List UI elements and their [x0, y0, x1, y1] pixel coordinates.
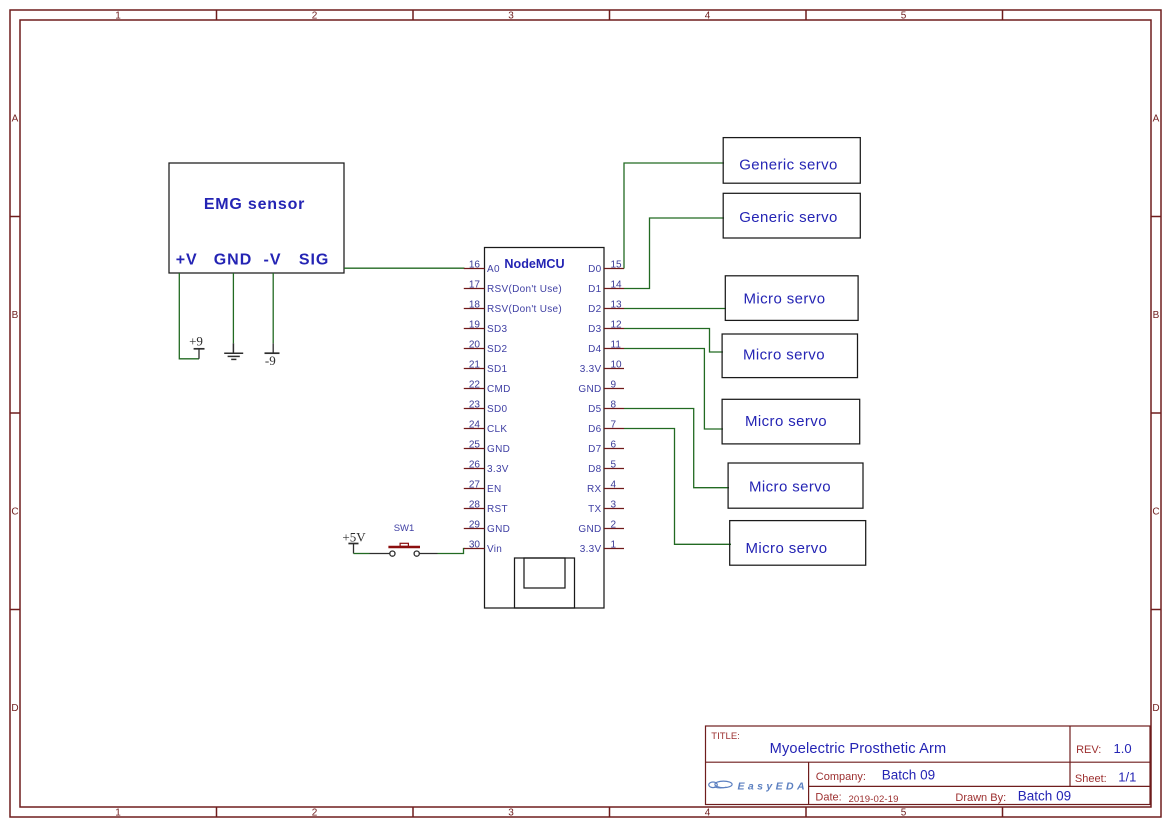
pin 10 (3.3V) [580, 360, 624, 376]
pin 13 (D2) [588, 300, 624, 316]
pin 12 (D3) [588, 320, 624, 336]
svg-text:5: 5 [611, 460, 617, 471]
NodeMCU U1 [485, 248, 605, 609]
wire SW1 to Vin [438, 549, 465, 554]
svg-text:SW1: SW1 [394, 523, 415, 534]
svg-text:1/1: 1/1 [1118, 769, 1136, 784]
pin 17 (RSV(Don't Use)) [464, 280, 562, 296]
Micro servo M4 [722, 334, 857, 378]
Generic servo M2 [723, 193, 860, 238]
svg-text:RSV(Don't Use): RSV(Don't Use) [487, 304, 562, 315]
svg-text:Generic servo: Generic servo [739, 209, 838, 226]
pin 1 (3.3V) [580, 540, 624, 556]
svg-text:C: C [11, 507, 18, 518]
svg-text:19: 19 [469, 320, 481, 331]
pin 4 (RX) [587, 480, 624, 496]
svg-text:+V: +V [176, 251, 198, 268]
svg-text:1: 1 [115, 11, 121, 22]
pin 14 (D1) [588, 280, 624, 296]
svg-text:Date:: Date: [815, 791, 841, 803]
svg-text:D7: D7 [588, 444, 602, 455]
svg-text:D: D [11, 703, 18, 714]
svg-text:3: 3 [508, 808, 514, 819]
Micro servo M7 [730, 521, 866, 566]
svg-text:A: A [12, 114, 19, 125]
svg-text:9: 9 [611, 380, 617, 391]
wire D6 to servo M7 [624, 429, 731, 545]
pin 6 (D7) [588, 440, 624, 456]
svg-text:3.3V: 3.3V [580, 364, 602, 375]
svg-text:21: 21 [469, 360, 481, 371]
svg-text:2: 2 [312, 808, 318, 819]
pin 8 (D5) [588, 400, 624, 416]
svg-text:28: 28 [469, 500, 481, 511]
svg-text:22: 22 [469, 380, 481, 391]
svg-text:29: 29 [469, 520, 481, 531]
svg-text:3: 3 [611, 500, 617, 511]
svg-text:1.0: 1.0 [1114, 741, 1132, 756]
wire SIG to A0 (net A0) [344, 267, 465, 269]
wire GND [232, 273, 234, 343]
svg-text:Generic servo: Generic servo [739, 157, 838, 174]
wire +5V to SW1 [354, 553, 370, 555]
wire D1 to servo M2 [624, 218, 724, 289]
svg-text:Vin: Vin [487, 544, 502, 555]
svg-text:EMG sensor: EMG sensor [204, 196, 305, 213]
svg-text:2: 2 [611, 520, 617, 531]
svg-text:-9: -9 [265, 353, 276, 368]
power +9 [189, 334, 204, 359]
svg-text:SIG: SIG [299, 251, 330, 268]
svg-text:GND: GND [578, 524, 601, 535]
svg-text:D1: D1 [588, 284, 602, 295]
svg-text:18: 18 [469, 300, 481, 311]
svg-text:2019-02-19: 2019-02-19 [849, 794, 899, 805]
pin 2 (GND) [578, 520, 624, 536]
pin 24 (CLK) [464, 420, 508, 436]
title block [706, 726, 1151, 805]
svg-text:4: 4 [705, 808, 711, 819]
svg-text:TITLE:: TITLE: [711, 731, 740, 742]
svg-text:Myoelectric Prosthetic Arm: Myoelectric Prosthetic Arm [770, 741, 947, 757]
svg-text:B: B [1153, 310, 1160, 321]
svg-text:D5: D5 [588, 404, 602, 415]
svg-text:C: C [1152, 507, 1159, 518]
svg-text:GND: GND [578, 384, 601, 395]
svg-text:5: 5 [901, 11, 907, 22]
svg-text:1: 1 [115, 808, 121, 819]
EMG sensor [169, 163, 344, 273]
Micro servo M3 [725, 276, 858, 321]
svg-text:3: 3 [508, 11, 514, 22]
svg-text:GND: GND [487, 524, 510, 535]
ground [224, 343, 243, 359]
svg-text:Micro servo: Micro servo [744, 291, 826, 308]
wire +V to +9 [179, 273, 199, 359]
pin 3 (TX) [588, 500, 624, 516]
svg-text:D4: D4 [588, 344, 602, 355]
svg-text:12: 12 [611, 320, 623, 331]
pin 27 (EN) [464, 480, 502, 496]
pin 20 (SD2) [464, 340, 508, 356]
svg-text:Drawn By:: Drawn By: [955, 792, 1006, 804]
pin 28 (RST) [464, 500, 508, 516]
pin 9 (GND) [578, 380, 624, 396]
pin 22 (CMD) [464, 380, 511, 396]
svg-text:Micro servo: Micro servo [743, 347, 825, 364]
svg-text:17: 17 [469, 280, 481, 291]
pin 7 (D6) [588, 420, 624, 436]
svg-text:Company:: Company: [816, 771, 866, 783]
power -9 [265, 343, 280, 368]
svg-text:Batch 09: Batch 09 [1018, 789, 1071, 804]
svg-text:7: 7 [611, 420, 617, 431]
pin 26 (3.3V) [464, 460, 509, 476]
svg-text:16: 16 [469, 260, 481, 271]
Generic servo M1 [723, 138, 860, 184]
Micro servo M6 [728, 463, 863, 508]
pin 11 (D4) [588, 340, 624, 356]
wire D0 to servo M1 [624, 163, 724, 269]
svg-text:REV:: REV: [1076, 744, 1101, 756]
svg-text:25: 25 [469, 440, 481, 451]
svg-text:3.3V: 3.3V [487, 464, 509, 475]
svg-text:GND: GND [214, 251, 253, 268]
svg-text:-V: -V [264, 251, 282, 268]
pin 19 (SD3) [464, 320, 508, 336]
svg-text:+9: +9 [189, 334, 203, 349]
svg-text:D0: D0 [588, 264, 602, 275]
svg-text:D6: D6 [588, 424, 602, 435]
svg-text:20: 20 [469, 340, 481, 351]
svg-text:4: 4 [611, 480, 617, 491]
wire D2 to servo M3 [624, 308, 726, 310]
svg-text:Sheet:: Sheet: [1075, 773, 1107, 785]
svg-text:3.3V: 3.3V [580, 544, 602, 555]
svg-text:30: 30 [469, 540, 481, 551]
svg-text:14: 14 [611, 280, 623, 291]
svg-text:A0: A0 [487, 264, 500, 275]
svg-text:NodeMCU: NodeMCU [504, 257, 564, 271]
svg-text:EN: EN [487, 484, 502, 495]
svg-text:6: 6 [611, 440, 617, 451]
svg-text:2: 2 [312, 11, 318, 22]
wire -V to -9 [272, 273, 274, 343]
svg-text:D2: D2 [588, 304, 602, 315]
svg-text:EasyEDA: EasyEDA [738, 780, 809, 792]
svg-text:11: 11 [611, 340, 622, 351]
svg-text:TX: TX [588, 504, 601, 515]
pin 18 (RSV(Don't Use)) [464, 300, 562, 316]
svg-text:RX: RX [587, 484, 602, 495]
pin 29 (GND) [464, 520, 510, 536]
svg-text:8: 8 [611, 400, 617, 411]
power +5V [342, 530, 366, 554]
svg-text:CMD: CMD [487, 384, 511, 395]
svg-text:SD3: SD3 [487, 324, 507, 335]
svg-text:4: 4 [705, 11, 711, 22]
svg-text:SD0: SD0 [487, 404, 507, 415]
svg-text:5: 5 [901, 808, 907, 819]
svg-text:Micro servo: Micro servo [749, 479, 831, 496]
svg-text:15: 15 [611, 260, 623, 271]
EasyEDA logo [709, 780, 808, 792]
svg-text:1: 1 [611, 540, 617, 551]
svg-text:SD1: SD1 [487, 364, 507, 375]
svg-text:Micro servo: Micro servo [745, 413, 827, 430]
svg-text:27: 27 [469, 480, 481, 491]
pin 16 (A0) [464, 260, 500, 276]
svg-text:D: D [1152, 703, 1159, 714]
svg-text:SD2: SD2 [487, 344, 507, 355]
svg-text:26: 26 [469, 460, 481, 471]
pin 23 (SD0) [464, 400, 508, 416]
svg-text:RST: RST [487, 504, 508, 515]
pin 25 (GND) [464, 440, 510, 456]
pin 5 (D8) [588, 460, 624, 476]
svg-text:RSV(Don't Use): RSV(Don't Use) [487, 284, 562, 295]
svg-text:GND: GND [487, 444, 510, 455]
svg-text:13: 13 [611, 300, 623, 311]
svg-text:B: B [12, 310, 19, 321]
svg-text:24: 24 [469, 420, 481, 431]
wire D5 to servo M6 [624, 409, 729, 488]
Micro servo M5 [722, 399, 860, 444]
svg-text:23: 23 [469, 400, 481, 411]
wire D4 to servo M5 [624, 349, 723, 430]
title block fields [711, 731, 1136, 805]
svg-text:D3: D3 [588, 324, 602, 335]
svg-text:Batch 09: Batch 09 [882, 768, 935, 783]
pin 15 (D0) [588, 260, 624, 276]
svg-text:CLK: CLK [487, 424, 507, 435]
pin 30 (Vin) [464, 540, 502, 556]
svg-text:A: A [1153, 114, 1160, 125]
svg-text:D8: D8 [588, 464, 602, 475]
svg-text:Micro servo: Micro servo [746, 540, 828, 557]
switch SW1 [370, 523, 438, 556]
wire D3 to servo M4 [624, 329, 723, 353]
svg-text:+5V: +5V [342, 530, 366, 545]
pin 21 (SD1) [464, 360, 508, 376]
svg-text:10: 10 [611, 360, 623, 371]
